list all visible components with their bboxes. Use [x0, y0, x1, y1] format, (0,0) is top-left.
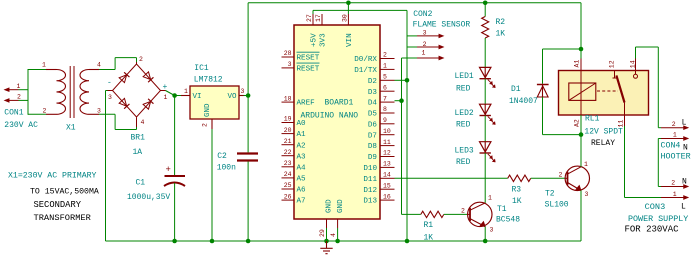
svg-text:1000u,35V: 1000u,35V — [127, 193, 170, 202]
svg-text:1: 1 — [17, 83, 21, 90]
svg-text:T1: T1 — [497, 205, 507, 214]
svg-text:FOR 230VAC: FOR 230VAC — [625, 225, 680, 235]
svg-text:6: 6 — [383, 84, 387, 91]
svg-text:7: 7 — [383, 95, 387, 102]
svg-text:1: 1 — [422, 50, 426, 57]
svg-text:16: 16 — [383, 193, 391, 200]
svg-text:23: 23 — [284, 160, 292, 167]
svg-text:3: 3 — [288, 61, 292, 68]
svg-text:D1/TX: D1/TX — [354, 67, 377, 75]
svg-text:12: 12 — [383, 150, 391, 157]
svg-text:RESET: RESET — [297, 55, 320, 63]
svg-text:2: 2 — [461, 208, 465, 215]
svg-text:C1: C1 — [136, 179, 146, 188]
svg-text:8: 8 — [383, 106, 387, 113]
svg-text:18: 18 — [284, 95, 292, 102]
svg-text:SECONDARY: SECONDARY — [34, 200, 82, 210]
svg-text:21: 21 — [284, 138, 292, 145]
svg-text:BR1: BR1 — [131, 134, 146, 143]
svg-text:X1=230V AC PRIMARY: X1=230V AC PRIMARY — [8, 172, 97, 181]
svg-text:100n: 100n — [217, 164, 236, 173]
svg-text:D6: D6 — [368, 121, 378, 129]
svg-text:5: 5 — [383, 74, 387, 81]
svg-text:D7: D7 — [368, 132, 377, 140]
svg-text:RESET: RESET — [297, 66, 320, 74]
svg-text:9: 9 — [383, 117, 387, 124]
svg-text:D13: D13 — [363, 198, 377, 206]
svg-text:3V3: 3V3 — [320, 33, 328, 47]
svg-text:12V SPDT: 12V SPDT — [584, 128, 623, 137]
svg-text:27: 27 — [306, 14, 313, 22]
svg-text:AREF: AREF — [297, 100, 316, 108]
svg-text:A2: A2 — [297, 142, 307, 150]
svg-text:1A: 1A — [133, 148, 143, 157]
svg-text:-: - — [107, 79, 112, 88]
svg-text:LED1: LED1 — [455, 72, 474, 81]
svg-text:230V AC: 230V AC — [4, 121, 38, 130]
svg-text:L: L — [681, 203, 686, 212]
svg-text:24: 24 — [284, 171, 292, 178]
svg-text:30: 30 — [342, 14, 349, 22]
svg-text:1: 1 — [488, 195, 492, 202]
svg-text:CON4: CON4 — [661, 141, 681, 150]
svg-text:+: + — [166, 165, 171, 175]
svg-text:D1: D1 — [511, 85, 521, 94]
svg-text:2: 2 — [17, 94, 21, 101]
svg-text:3: 3 — [423, 30, 427, 37]
svg-text:2: 2 — [423, 41, 427, 48]
svg-text:1K: 1K — [424, 233, 434, 242]
svg-text:D0/RX: D0/RX — [354, 56, 377, 64]
svg-text:X1: X1 — [66, 124, 76, 133]
svg-text:BOARD1: BOARD1 — [325, 99, 354, 108]
svg-text:3: 3 — [97, 108, 101, 115]
svg-text:2: 2 — [43, 108, 47, 115]
svg-text:14: 14 — [383, 172, 391, 179]
svg-text:1: 1 — [673, 132, 677, 139]
svg-text:CON3: CON3 — [645, 202, 666, 212]
svg-text:2: 2 — [671, 179, 675, 186]
svg-text:2: 2 — [383, 52, 387, 59]
svg-text:11: 11 — [618, 120, 625, 128]
svg-text:D12: D12 — [363, 187, 377, 195]
svg-text:CON2: CON2 — [413, 10, 432, 19]
svg-text:D10: D10 — [363, 165, 377, 173]
svg-text:13: 13 — [383, 161, 391, 168]
svg-text:10: 10 — [383, 128, 391, 135]
svg-text:1N4007: 1N4007 — [509, 97, 538, 106]
svg-text:LM7812: LM7812 — [194, 76, 223, 85]
svg-text:19: 19 — [284, 116, 292, 123]
svg-text:2: 2 — [672, 121, 676, 128]
svg-text:1K: 1K — [496, 30, 506, 39]
svg-text:D2: D2 — [368, 78, 378, 86]
svg-text:T2: T2 — [545, 189, 555, 198]
svg-text:20: 20 — [284, 127, 292, 134]
svg-text:3: 3 — [490, 227, 494, 234]
svg-text:RED: RED — [456, 121, 471, 130]
svg-text:BC548: BC548 — [496, 215, 520, 224]
svg-text:A1: A1 — [297, 131, 307, 139]
svg-text:3: 3 — [108, 94, 112, 101]
svg-text:SL100: SL100 — [545, 200, 569, 209]
svg-text:GND: GND — [204, 103, 212, 117]
svg-text:C2: C2 — [217, 152, 227, 161]
svg-text:TO 15VAC,500MA: TO 15VAC,500MA — [30, 187, 99, 196]
svg-text:A0: A0 — [297, 120, 307, 128]
svg-text:RED: RED — [456, 84, 471, 93]
svg-text:15: 15 — [383, 182, 391, 189]
svg-text:LED2: LED2 — [455, 109, 474, 118]
svg-text:A3: A3 — [297, 153, 307, 161]
svg-text:A6: A6 — [297, 187, 307, 195]
svg-text:FLAME SENSOR: FLAME SENSOR — [413, 20, 471, 29]
svg-text:POWER SUPPLY: POWER SUPPLY — [628, 214, 688, 224]
svg-text:2: 2 — [202, 123, 209, 127]
svg-text:R1: R1 — [424, 221, 434, 230]
svg-text:D4: D4 — [368, 100, 378, 108]
svg-text:CON1: CON1 — [4, 109, 23, 118]
svg-text:A5: A5 — [297, 176, 307, 184]
svg-text:1: 1 — [164, 94, 168, 101]
svg-text:GND: GND — [337, 199, 345, 213]
svg-text:TRANSFORMER: TRANSFORMER — [34, 213, 91, 223]
svg-text:1: 1 — [383, 63, 387, 70]
svg-text:D3: D3 — [368, 89, 378, 97]
svg-text:L: L — [682, 119, 687, 128]
svg-text:12: 12 — [609, 60, 616, 68]
svg-text:A7: A7 — [297, 198, 306, 206]
svg-text:22: 22 — [284, 149, 292, 156]
svg-text:4: 4 — [330, 233, 337, 237]
svg-text:HOOTER: HOOTER — [661, 152, 691, 162]
svg-text:4: 4 — [97, 62, 101, 69]
svg-text:GND: GND — [326, 199, 334, 213]
svg-text:+5V: +5V — [311, 33, 319, 47]
svg-text:2: 2 — [139, 56, 143, 63]
svg-text:D5: D5 — [368, 111, 378, 119]
svg-text:28: 28 — [284, 50, 292, 57]
svg-text:4: 4 — [141, 119, 145, 126]
svg-text:ARDUINO NANO: ARDUINO NANO — [301, 112, 359, 121]
svg-text:26: 26 — [284, 193, 292, 200]
svg-text:R3: R3 — [512, 186, 522, 195]
svg-text:VIN: VIN — [346, 33, 354, 47]
svg-text:A2: A2 — [574, 119, 581, 127]
svg-text:D11: D11 — [363, 176, 377, 184]
svg-text:IC1: IC1 — [194, 64, 209, 73]
svg-text:3: 3 — [585, 191, 589, 198]
svg-text:3: 3 — [241, 88, 245, 95]
svg-text:LED3: LED3 — [455, 147, 474, 156]
svg-text:R2: R2 — [496, 18, 506, 27]
svg-text:14: 14 — [630, 60, 637, 68]
svg-text:17: 17 — [315, 14, 322, 22]
svg-text:2: 2 — [559, 172, 563, 179]
svg-text:25: 25 — [284, 182, 292, 189]
svg-text:A1: A1 — [574, 60, 581, 68]
svg-text:RL1: RL1 — [585, 115, 600, 124]
svg-text:11: 11 — [383, 139, 391, 146]
svg-text:1: 1 — [584, 161, 588, 168]
svg-text:A4: A4 — [297, 164, 307, 172]
svg-text:D8: D8 — [368, 143, 378, 151]
svg-text:1K: 1K — [512, 197, 522, 206]
svg-text:RED: RED — [456, 158, 471, 167]
svg-text:RELAY: RELAY — [591, 139, 615, 148]
svg-text:VI: VI — [193, 93, 202, 101]
svg-text:1: 1 — [42, 62, 46, 69]
svg-text:D9: D9 — [368, 154, 378, 162]
svg-text:29: 29 — [319, 229, 326, 237]
svg-text:VO: VO — [227, 93, 237, 101]
svg-text:1: 1 — [184, 88, 188, 95]
svg-text:1: 1 — [673, 191, 677, 198]
svg-text:N: N — [682, 178, 687, 187]
